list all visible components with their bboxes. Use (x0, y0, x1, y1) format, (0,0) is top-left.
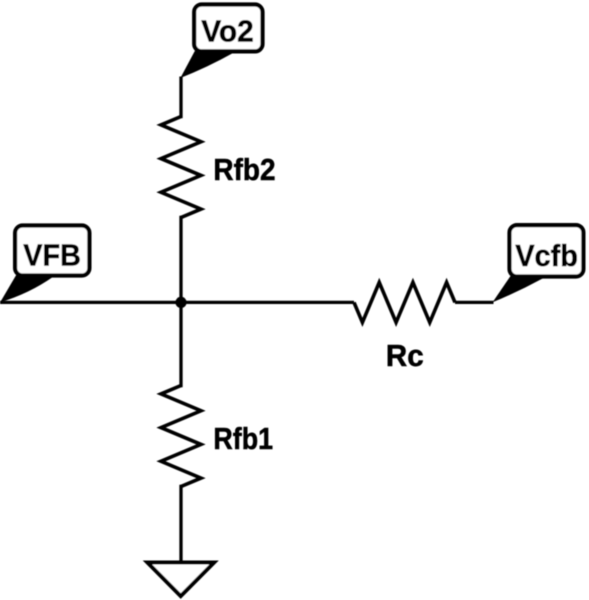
svg-text:Rfb1: Rfb1 (213, 422, 273, 456)
svg-text:VFB: VFB (23, 239, 81, 273)
svg-text:Vcfb: Vcfb (515, 239, 578, 273)
svg-text:Vo2: Vo2 (201, 14, 254, 49)
svg-text:Rfb2: Rfb2 (213, 153, 275, 188)
svg-text:Rc: Rc (386, 340, 424, 374)
